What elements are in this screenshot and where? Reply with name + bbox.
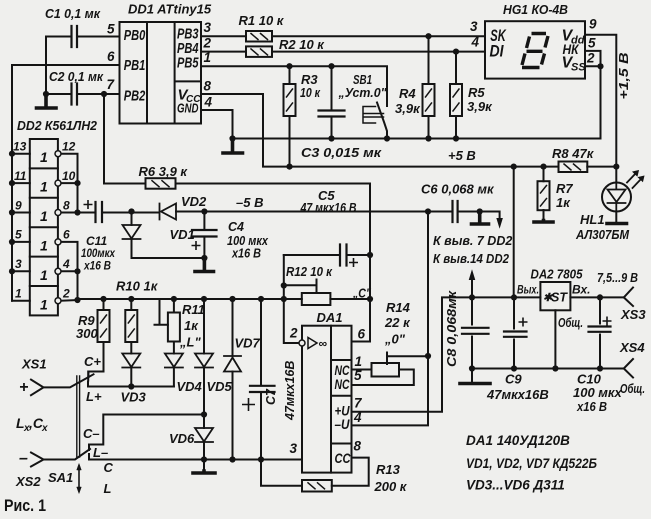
svg-text:1: 1	[40, 179, 48, 195]
svg-text:К выв.14 DD2: К выв.14 DD2	[433, 252, 509, 266]
capacitor C9 47uF	[504, 332, 527, 337]
svg-text:К выв. 7 DD2: К выв. 7 DD2	[433, 234, 512, 248]
capacitor C4 100uF	[192, 230, 217, 237]
svg-text:XS4: XS4	[619, 340, 645, 355]
junction (104,94)	[101, 91, 107, 97]
svg-text:Вх.: Вх.	[572, 283, 591, 297]
svg-text:L+: L+	[86, 389, 102, 404]
svg-text:„L": „L"	[179, 335, 201, 350]
junction (232.5,299)	[229, 296, 235, 302]
svg-text:6: 6	[107, 49, 115, 64]
junction (12,153.7)	[9, 151, 15, 157]
plus of C5	[349, 258, 358, 267]
junction (77.5,300)	[74, 297, 80, 303]
regulator DA2 7805 body	[540, 282, 570, 310]
svg-text:300: 300	[76, 326, 98, 341]
wire DA1 pin7 +U to plus rail	[352, 297, 624, 411]
wire R14 pin5 loop	[352, 370, 414, 386]
pushbutton SB1 Ust.0	[363, 107, 384, 124]
svg-text:12: 12	[62, 140, 76, 154]
7seg digit 8 in HG1	[522, 34, 548, 68]
svg-text:XS2: XS2	[15, 474, 41, 489]
wire SB1 bottom lead	[386, 133, 388, 139]
junction (131.3,386.5)	[128, 383, 134, 389]
junction (289.5,66.2)	[286, 63, 292, 69]
DD1 pin names	[124, 26, 201, 116]
svg-text:DD2 К561ЛН2: DD2 К561ЛН2	[17, 118, 98, 133]
diode VD2	[160, 204, 177, 220]
ground symbol at C2	[37, 94, 57, 108]
DD2 pin numbers	[13, 140, 76, 301]
wire R9 leads to C+ contact	[88, 299, 103, 381]
capacitor C1 0.1uF	[72, 26, 78, 47]
junction (232.5,459.5)	[229, 456, 235, 462]
DD2 inverter symbols	[40, 149, 48, 313]
junction (204,414.5)	[201, 411, 207, 417]
junction (77.5,183.1)	[74, 180, 80, 186]
DA1 pin names	[319, 337, 351, 467]
svg-text:200 к: 200 к	[374, 479, 408, 494]
junction (131.5,211.5)	[128, 208, 134, 214]
wire C8 vertical with arrow to DD2 pin14	[471, 277, 473, 381]
IC DD1 ATtiny15 body	[120, 22, 202, 124]
junction (232.5,138.5)	[229, 135, 235, 141]
svg-text:1к: 1к	[184, 318, 199, 333]
svg-text:SS: SS	[571, 62, 586, 74]
svg-text:х16 В: х16 В	[576, 399, 607, 414]
wire ground rail y138	[233, 66, 601, 138]
ground symbol at VD6	[193, 471, 215, 473]
capacitor C5 47uF	[340, 245, 347, 266]
plus of C9	[519, 318, 528, 327]
svg-text:3,9к: 3,9к	[395, 101, 421, 116]
resistor R1 10k	[246, 31, 272, 42]
svg-text:СС: СС	[335, 451, 351, 466]
op-amp DA1 pin2 input circle	[299, 340, 305, 346]
op-amp DA1 amplifier symbol	[308, 338, 317, 349]
svg-text:–5 В: –5 В	[236, 195, 263, 210]
wire HL1 bottom lead	[615, 212, 617, 223]
label C11	[81, 234, 116, 273]
svg-text:6: 6	[358, 327, 366, 342]
svg-text:47 мкх16 В: 47 мкх16 В	[300, 200, 357, 215]
svg-text:DA1 140УД120В: DA1 140УД120В	[466, 433, 570, 448]
junction (331.5,138.5)	[328, 135, 334, 141]
IC DD2 output circles	[55, 151, 61, 304]
junction (428.5,138.5)	[425, 135, 431, 141]
connector XS4	[624, 359, 633, 378]
svg-text:1: 1	[40, 297, 48, 313]
svg-text:VD5: VD5	[207, 379, 233, 394]
svg-text:R1 10 к: R1 10 к	[239, 13, 285, 28]
svg-text:2: 2	[289, 326, 298, 341]
ground symbol at DD1 GND	[223, 139, 243, 154]
svg-text:47мкх16В: 47мкх16В	[283, 361, 297, 421]
resistor R3 10k	[284, 84, 296, 116]
resistor R4 3.9k	[423, 84, 435, 116]
wire VD7 leads	[232, 299, 234, 460]
svg-text:C1 0,1 мк: C1 0,1 мк	[45, 6, 101, 21]
svg-text:1: 1	[355, 354, 363, 369]
ground symbol at HL1	[607, 222, 627, 226]
svg-text:HG1 КО-4В: HG1 КО-4В	[503, 2, 568, 17]
HG1 pin numbers	[470, 17, 597, 66]
junction (283.8,285.5)	[281, 282, 287, 288]
svg-text:XS3: XS3	[620, 307, 646, 322]
junction (600,297.4)	[597, 294, 603, 300]
svg-text:R4: R4	[399, 86, 416, 101]
junction (204,299)	[201, 296, 207, 302]
svg-text:C7: C7	[264, 388, 278, 405]
svg-text:100 мкх: 100 мкх	[573, 385, 623, 400]
connector XS3	[624, 288, 633, 307]
diode VD5	[195, 354, 213, 368]
junction (428,356)	[425, 353, 431, 359]
svg-text:4: 4	[353, 410, 362, 425]
LED HL1 AL307BM	[602, 183, 631, 212]
svg-text:VD1, VD2, VD7 КД522Б: VD1, VD2, VD7 КД522Б	[466, 456, 597, 471]
wire DD1 pin5 to C1	[46, 37, 120, 95]
wire R4 leads	[428, 36, 430, 138]
junction (456,138.5)	[453, 135, 459, 141]
resistor R8 47k	[559, 162, 588, 173]
svg-text:4: 4	[62, 257, 70, 271]
wire C7 leads	[260, 299, 262, 460]
junction (283.8,299)	[281, 296, 287, 302]
wire -5V to -U vertical, DA1 pin4	[352, 212, 429, 426]
wire HG1 pin5,pin2	[585, 51, 601, 66]
svg-text:4: 4	[204, 95, 213, 110]
resistor R2 10k	[246, 46, 272, 57]
svg-text:8: 8	[204, 79, 212, 94]
svg-text:3: 3	[470, 19, 478, 34]
svg-text:DD1 ATtiny15: DD1 ATtiny15	[128, 2, 212, 17]
plus of C4	[192, 241, 201, 250]
resistor R10 1k	[125, 310, 137, 342]
wire VD5 leads	[203, 299, 205, 415]
svg-text:VD3: VD3	[121, 390, 147, 405]
svg-text:C8 0,068мк: C8 0,068мк	[445, 290, 459, 367]
junction (472,297.4)	[469, 294, 475, 300]
junction (46,94)	[43, 91, 49, 97]
svg-text:R12 10 к: R12 10 к	[286, 264, 333, 279]
junction (12,271.3)	[9, 268, 15, 274]
capacitor C11 100uF	[96, 202, 103, 222]
wire bottom common rail XS4	[472, 368, 624, 370]
svg-text:7,5...9 В: 7,5...9 В	[597, 270, 638, 285]
svg-text:1: 1	[40, 149, 48, 165]
svg-text:DA2 7805: DA2 7805	[531, 267, 584, 282]
svg-text:VD7: VD7	[235, 336, 261, 351]
wire C- from SA1	[89, 415, 204, 451]
svg-text:22 к: 22 к	[384, 315, 411, 330]
resistor R12 10k trimmer	[302, 293, 331, 305]
svg-text:C+: C+	[84, 354, 101, 369]
svg-text:PB2: PB2	[124, 88, 146, 105]
wire DA2 common lead	[554, 310, 556, 368]
svg-text:5: 5	[107, 22, 115, 37]
capacitor C3 0.015uF	[319, 111, 345, 117]
wire C5 net	[284, 254, 370, 256]
svg-text:5: 5	[354, 368, 362, 383]
wire C3 leads	[331, 66, 333, 138]
svg-text:C4: C4	[228, 220, 244, 234]
junction (479.7,211.5)	[477, 208, 483, 214]
svg-text:+: +	[19, 379, 28, 396]
svg-text:R2 10 к: R2 10 к	[279, 37, 325, 52]
wire VD1 leads	[132, 212, 205, 259]
svg-text:6: 6	[63, 228, 70, 242]
svg-text:–U: –U	[335, 417, 351, 432]
wire HG1 pin9 Vdd to +1.5V	[585, 35, 616, 183]
SA1 updown arrow	[77, 464, 82, 494]
junction (543.5,166.6)	[540, 164, 546, 170]
junction (204,459.5)	[201, 456, 207, 462]
wire DD1 pin7 / C2 net	[46, 93, 120, 95]
capacitor C7 47uF	[250, 386, 275, 392]
svg-text:3: 3	[204, 20, 212, 35]
svg-text:5: 5	[588, 36, 596, 51]
diode VD7	[224, 356, 241, 372]
junction (370,255)	[367, 252, 373, 258]
wire DD2 input stubs	[12, 154, 30, 301]
svg-text:VD3...VD6 Д311: VD3...VD6 Д311	[466, 478, 565, 493]
svg-text:„0": „0"	[384, 332, 406, 347]
junction (616.3,166.6)	[613, 164, 619, 170]
svg-text:х16 В: х16 В	[231, 247, 261, 261]
svg-text:5: 5	[15, 228, 22, 242]
wire R11 VD4 leads	[173, 299, 175, 387]
wire node C vertical to DA1 pin2	[284, 255, 299, 343]
wire VD6 leads	[203, 415, 205, 472]
svg-text:PB5: PB5	[177, 55, 199, 72]
svg-text:VD2: VD2	[181, 194, 207, 209]
wire DD1 pin6 to DD2 inputs rail	[12, 65, 120, 301]
svg-text:1: 1	[40, 238, 48, 254]
DD1 pin numbers	[107, 20, 213, 110]
wire R5 leads	[455, 52, 457, 139]
junction (387,138.5)	[384, 135, 390, 141]
svg-text:Вых.: Вых.	[517, 283, 539, 297]
wire R14 wiper to -U vertical	[387, 353, 428, 365]
junction (456,51.6)	[453, 49, 459, 55]
junction (555.4,368.5)	[552, 365, 558, 371]
svg-text:L–: L–	[93, 445, 108, 460]
svg-text:NC: NC	[335, 377, 350, 392]
display HG1 KO-4V body	[485, 21, 585, 78]
capacitor C8 0.068uF	[462, 328, 489, 334]
junction (600,368.5)	[597, 365, 603, 371]
junction (204.4,211.5)	[201, 208, 207, 214]
wire DD2 outputs 12,10,8 tie	[61, 154, 78, 213]
resistor R7 1k	[538, 181, 550, 210]
wire Vcc net: DD1 pin8 to +5V rail	[201, 94, 616, 167]
svg-text:PB0: PB0	[124, 27, 146, 44]
wire R6 net: pin7 node to DA1 pin6 node	[104, 94, 370, 255]
svg-text:DA1: DA1	[317, 310, 343, 325]
junction (77.5,271.3)	[74, 268, 80, 274]
wire +5V to plus rail vertical	[513, 167, 515, 298]
svg-text:Рис. 1: Рис. 1	[4, 496, 46, 515]
svg-text:R5: R5	[468, 85, 485, 100]
resistor R5 3.9k	[450, 84, 462, 116]
resistor R11 1k	[168, 313, 180, 342]
wire R14 pin1	[352, 369, 372, 371]
svg-text:1к: 1к	[556, 195, 571, 210]
svg-text:∞: ∞	[319, 337, 328, 351]
junction (261,459.5)	[258, 456, 264, 462]
junction (173.9,299)	[171, 296, 177, 302]
svg-text:+5 В: +5 В	[448, 148, 476, 163]
junction (131.3,299)	[128, 296, 134, 302]
ground symbol at C6	[472, 212, 489, 225]
label C4	[227, 220, 269, 261]
wire R2 net: DD1 pin2 to HG1 pin4	[201, 51, 485, 53]
junction (12,183.1)	[9, 180, 15, 186]
svg-text:9: 9	[15, 199, 22, 213]
diode VD6	[195, 428, 213, 442]
resistor R14 22k potentiometer	[372, 363, 400, 377]
connector XS2 and switch SA1.2 moving arm	[31, 449, 90, 467]
junction (77.5,212.5)	[74, 209, 80, 215]
svg-text:х16 В: х16 В	[83, 259, 111, 273]
svg-text:8: 8	[63, 199, 70, 213]
arrow to DD2 pin14	[469, 271, 474, 280]
svg-text:1: 1	[40, 208, 48, 224]
wire R11 wiper	[155, 299, 168, 325]
svg-text:NC: NC	[335, 363, 350, 378]
svg-text:C6 0,068 мк: C6 0,068 мк	[421, 182, 495, 197]
svg-text:VD1: VD1	[170, 227, 195, 242]
switch SA1 contact C+	[88, 372, 90, 378]
junction (428.5,36.2)	[425, 33, 431, 39]
resistor R9 300	[98, 310, 110, 342]
svg-text:„С": „С"	[352, 286, 371, 301]
junction (472,368.5)	[469, 365, 475, 371]
resistor R13 200k	[302, 480, 332, 492]
svg-text:C: C	[104, 460, 114, 475]
svg-text:13: 13	[13, 140, 27, 154]
svg-text:SA1: SA1	[48, 470, 73, 485]
wire L+	[88, 382, 174, 387]
plus of C7	[242, 398, 255, 411]
capacitor C6 0.068uF	[453, 201, 458, 222]
arrow to DD2 pin7	[497, 219, 502, 228]
junction (600.5,66.3)	[597, 63, 603, 69]
wire R12 leads	[284, 298, 370, 300]
svg-text:C–: C–	[83, 426, 100, 441]
svg-text:1: 1	[15, 287, 22, 301]
polarity plus marks	[84, 200, 612, 411]
svg-text:11: 11	[14, 169, 27, 183]
wire DA1 pin6	[352, 255, 371, 342]
svg-text:VD6: VD6	[169, 431, 195, 446]
junction (103.5,299)	[100, 296, 106, 302]
junction (204.4,258)	[201, 255, 207, 261]
svg-text:3,9к: 3,9к	[467, 99, 493, 114]
diode VD3	[122, 354, 140, 368]
svg-text:3: 3	[290, 441, 298, 456]
svg-text:R13: R13	[376, 462, 401, 477]
svg-text:VD4: VD4	[177, 379, 203, 394]
wire PB5 net: DD1 pin1 to R3,C3,SB1	[201, 66, 387, 106]
svg-text:HL1: HL1	[580, 212, 605, 227]
svg-text:R11: R11	[182, 302, 205, 317]
connector XS1 and switch SA1.1 moving arm	[31, 374, 94, 395]
wire R3 leads	[289, 66, 291, 166]
junction (12,241.9)	[9, 239, 15, 245]
wire R10 VD3 leads	[130, 299, 132, 387]
wire C4 leads	[203, 212, 205, 271]
svg-text:1: 1	[40, 267, 48, 283]
op-amp DA1 140UD1208 body	[302, 326, 352, 473]
svg-text:Общ.: Общ.	[558, 316, 583, 330]
svg-text:2: 2	[586, 51, 595, 66]
ground symbol at C8	[460, 382, 490, 386]
svg-text:2: 2	[203, 36, 212, 51]
junction (514,297.4)	[511, 294, 517, 300]
svg-text:DI: DI	[490, 42, 505, 61]
svg-text:R7: R7	[556, 181, 573, 196]
switch SA1 mechanical linkage	[77, 376, 80, 457]
LED HL1 emission arrows	[627, 173, 642, 189]
svg-text:ST: ST	[551, 291, 568, 305]
wire C10 leads	[599, 297, 601, 368]
svg-text:10: 10	[62, 169, 76, 183]
svg-text:GND: GND	[177, 102, 199, 116]
wire measuring rail y299	[78, 298, 284, 300]
svg-text:C9: C9	[505, 372, 522, 387]
svg-text:8: 8	[354, 439, 362, 454]
svg-text:R14: R14	[386, 300, 411, 315]
junction (261,299)	[258, 296, 264, 302]
wire R13 net to DA1 pin8	[261, 458, 369, 486]
wire DD1 pin4 GND	[201, 110, 233, 139]
svg-text:+1,5 В: +1,5 В	[616, 53, 631, 100]
svg-text:R8 47к: R8 47к	[552, 146, 595, 161]
IC DD2 K561LN2 body	[30, 139, 58, 315]
ground symbol at C4	[195, 258, 214, 272]
junction (428,211.5)	[425, 208, 431, 214]
svg-text:9: 9	[589, 17, 597, 32]
DA1 pin numbers	[289, 326, 366, 457]
svg-text:10 к: 10 к	[300, 85, 321, 100]
wire bottom common L- to DA1 pin3	[89, 454, 302, 460]
junction (513.7,166.6)	[511, 164, 517, 170]
svg-text:х: х	[41, 423, 48, 434]
wire R7 leads	[543, 167, 545, 221]
svg-text:C3 0,015 мк: C3 0,015 мк	[301, 145, 383, 160]
svg-text:R10 1к: R10 1к	[116, 279, 159, 294]
svg-text:–: –	[19, 450, 28, 467]
svg-text:3: 3	[15, 257, 22, 271]
wire -5V rail: DD2 pin8, C11, VD1, VD2, C4, C6	[61, 212, 500, 223]
junction (370,299)	[367, 296, 373, 302]
diode VD4	[165, 354, 183, 368]
wire R1 net: DD1 pin3 to HG1 pin3	[201, 35, 485, 37]
svg-text:PB1: PB1	[124, 57, 146, 74]
plus of C11	[84, 200, 93, 209]
svg-text:2: 2	[62, 287, 70, 301]
svg-text:XS1: XS1	[21, 357, 47, 372]
svg-text:4: 4	[471, 35, 480, 50]
svg-text:Общ.: Общ.	[620, 382, 645, 396]
svg-text:L: L	[104, 481, 112, 496]
wire R12 wiper	[284, 280, 317, 293]
plus of C10	[603, 317, 612, 326]
capacitor C10 100uF	[589, 327, 611, 332]
junction (331.5,66.2)	[328, 63, 334, 69]
